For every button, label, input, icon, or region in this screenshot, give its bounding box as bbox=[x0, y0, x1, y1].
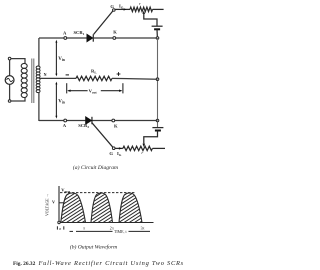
Vmax dashed level bbox=[60, 192, 135, 194]
wire AC source vertical top bbox=[9, 60, 11, 76]
potentiometer wiper arrow r2 bbox=[143, 144, 146, 147]
thyristor SCR1 bbox=[87, 34, 93, 41]
transformer core bbox=[31, 59, 33, 104]
svg-text:G: G bbox=[110, 4, 114, 9]
wire secondary top to rail bbox=[38, 38, 40, 66]
gate wire G to resistor r1 bbox=[115, 8, 130, 10]
svg-text:π: π bbox=[83, 227, 85, 231]
waveform hump 1 bbox=[61, 193, 86, 223]
waveform y axis bbox=[58, 186, 60, 223]
Vout arrow bbox=[68, 90, 87, 92]
svg-text:Fig. 26.32: Fig. 26.32 bbox=[13, 261, 36, 267]
svg-text:RL: RL bbox=[91, 69, 97, 75]
node G of SCR1 bbox=[113, 9, 116, 12]
node A bottom bbox=[64, 119, 67, 122]
svg-text:Full-Wave Rectifier Circuit Us: Full-Wave Rectifier Circuit Using Two SC… bbox=[38, 260, 184, 267]
svg-text:K: K bbox=[113, 30, 117, 35]
battery E1 bbox=[152, 25, 163, 27]
svg-text:Vmax: Vmax bbox=[61, 187, 70, 193]
waveform hump 3 bbox=[119, 193, 142, 223]
wire RL to right rail bbox=[112, 77, 158, 80]
svg-text:Vout: Vout bbox=[89, 89, 98, 95]
TIME axis label bbox=[70, 230, 74, 232]
wire top rail right bbox=[94, 37, 158, 39]
svg-text:Vin: Vin bbox=[58, 100, 65, 105]
potentiometer wiper arrow r1 bbox=[143, 11, 146, 14]
transformer secondary winding bbox=[36, 66, 40, 69]
thyristor SCR2 bbox=[86, 117, 92, 124]
svg-text:SCR2: SCR2 bbox=[78, 123, 89, 129]
junction node right at bottom rail bbox=[156, 119, 159, 122]
waveform hump 2 bbox=[91, 193, 113, 223]
wire right rail bbox=[157, 38, 159, 128]
svg-text:K: K bbox=[114, 123, 118, 128]
wire secondary bottom to bottom rail bbox=[38, 92, 40, 121]
Vout measurement right bar bbox=[122, 83, 124, 93]
resistor r1 (gate, variable) bbox=[130, 7, 153, 11]
svg-text:VOLTAGE →: VOLTAGE → bbox=[45, 193, 49, 216]
AC source V1 bbox=[5, 76, 14, 85]
Vin lower arrow bbox=[55, 83, 57, 117]
wire bottom rail right bbox=[93, 120, 158, 122]
svg-text:r: r bbox=[139, 1, 141, 6]
svg-text:(b) Output Waveform: (b) Output Waveform bbox=[70, 244, 117, 251]
svg-text:N: N bbox=[44, 72, 47, 77]
wire source top to primary bbox=[11, 59, 25, 64]
wire center tap N to load bbox=[39, 77, 76, 79]
Vin upper arrow bbox=[55, 42, 57, 75]
alpha firing angle marker bbox=[56, 226, 58, 229]
svg-text:α: α bbox=[59, 227, 62, 231]
gate wire G2 to resistor r2 bbox=[115, 147, 123, 149]
minus polarity label bbox=[66, 74, 69, 76]
load resistor RL bbox=[76, 76, 112, 80]
wire AC source vertical bottom bbox=[9, 84, 11, 100]
svg-text:(a) Circuit Diagram: (a) Circuit Diagram bbox=[73, 164, 118, 171]
svg-text:A: A bbox=[63, 31, 67, 36]
svg-text:SCR1: SCR1 bbox=[74, 30, 85, 36]
terminal node bottom of source bbox=[8, 100, 11, 103]
wire top rail left bbox=[39, 37, 87, 39]
svg-text:G: G bbox=[109, 151, 113, 156]
waveform origin node bbox=[58, 221, 60, 223]
svg-text:IG: IG bbox=[119, 3, 124, 9]
SCR1 gate wire bbox=[94, 11, 113, 35]
waveform x axis bbox=[60, 222, 154, 224]
wire bottom rail left bbox=[39, 120, 86, 122]
svg-text:3π: 3π bbox=[141, 227, 145, 231]
junction node top right bbox=[156, 37, 159, 40]
wire source bottom to primary bbox=[11, 97, 25, 101]
svg-text:A: A bbox=[63, 123, 67, 128]
junction node right at RL bbox=[156, 78, 159, 81]
wire resistor r2 right stub bbox=[153, 147, 166, 149]
svg-text:V: V bbox=[52, 199, 55, 204]
plus polarity label bbox=[117, 73, 121, 75]
svg-text:TIME, t: TIME, t bbox=[114, 230, 127, 235]
wire battery E2 to wiper r2 bbox=[144, 131, 158, 144]
node A top bbox=[64, 37, 67, 40]
wire resistor r1 right stub bbox=[153, 8, 164, 10]
wire battery E1 to top rail node bbox=[156, 29, 158, 38]
Vout measurement left bar bbox=[66, 83, 68, 93]
transformer primary winding bbox=[21, 63, 27, 68]
svg-text:Vin: Vin bbox=[58, 57, 65, 62]
SCR2 gate wire bbox=[92, 123, 113, 148]
node G of SCR2 bbox=[112, 147, 115, 150]
node K bottom bbox=[112, 119, 115, 122]
node K top bbox=[113, 37, 116, 40]
svg-text:IG: IG bbox=[117, 151, 122, 157]
resistor r2 (gate, variable) bbox=[123, 146, 153, 150]
svg-text:r: r bbox=[141, 150, 143, 155]
battery E2 bbox=[152, 127, 163, 129]
terminal node top of source bbox=[8, 57, 11, 60]
